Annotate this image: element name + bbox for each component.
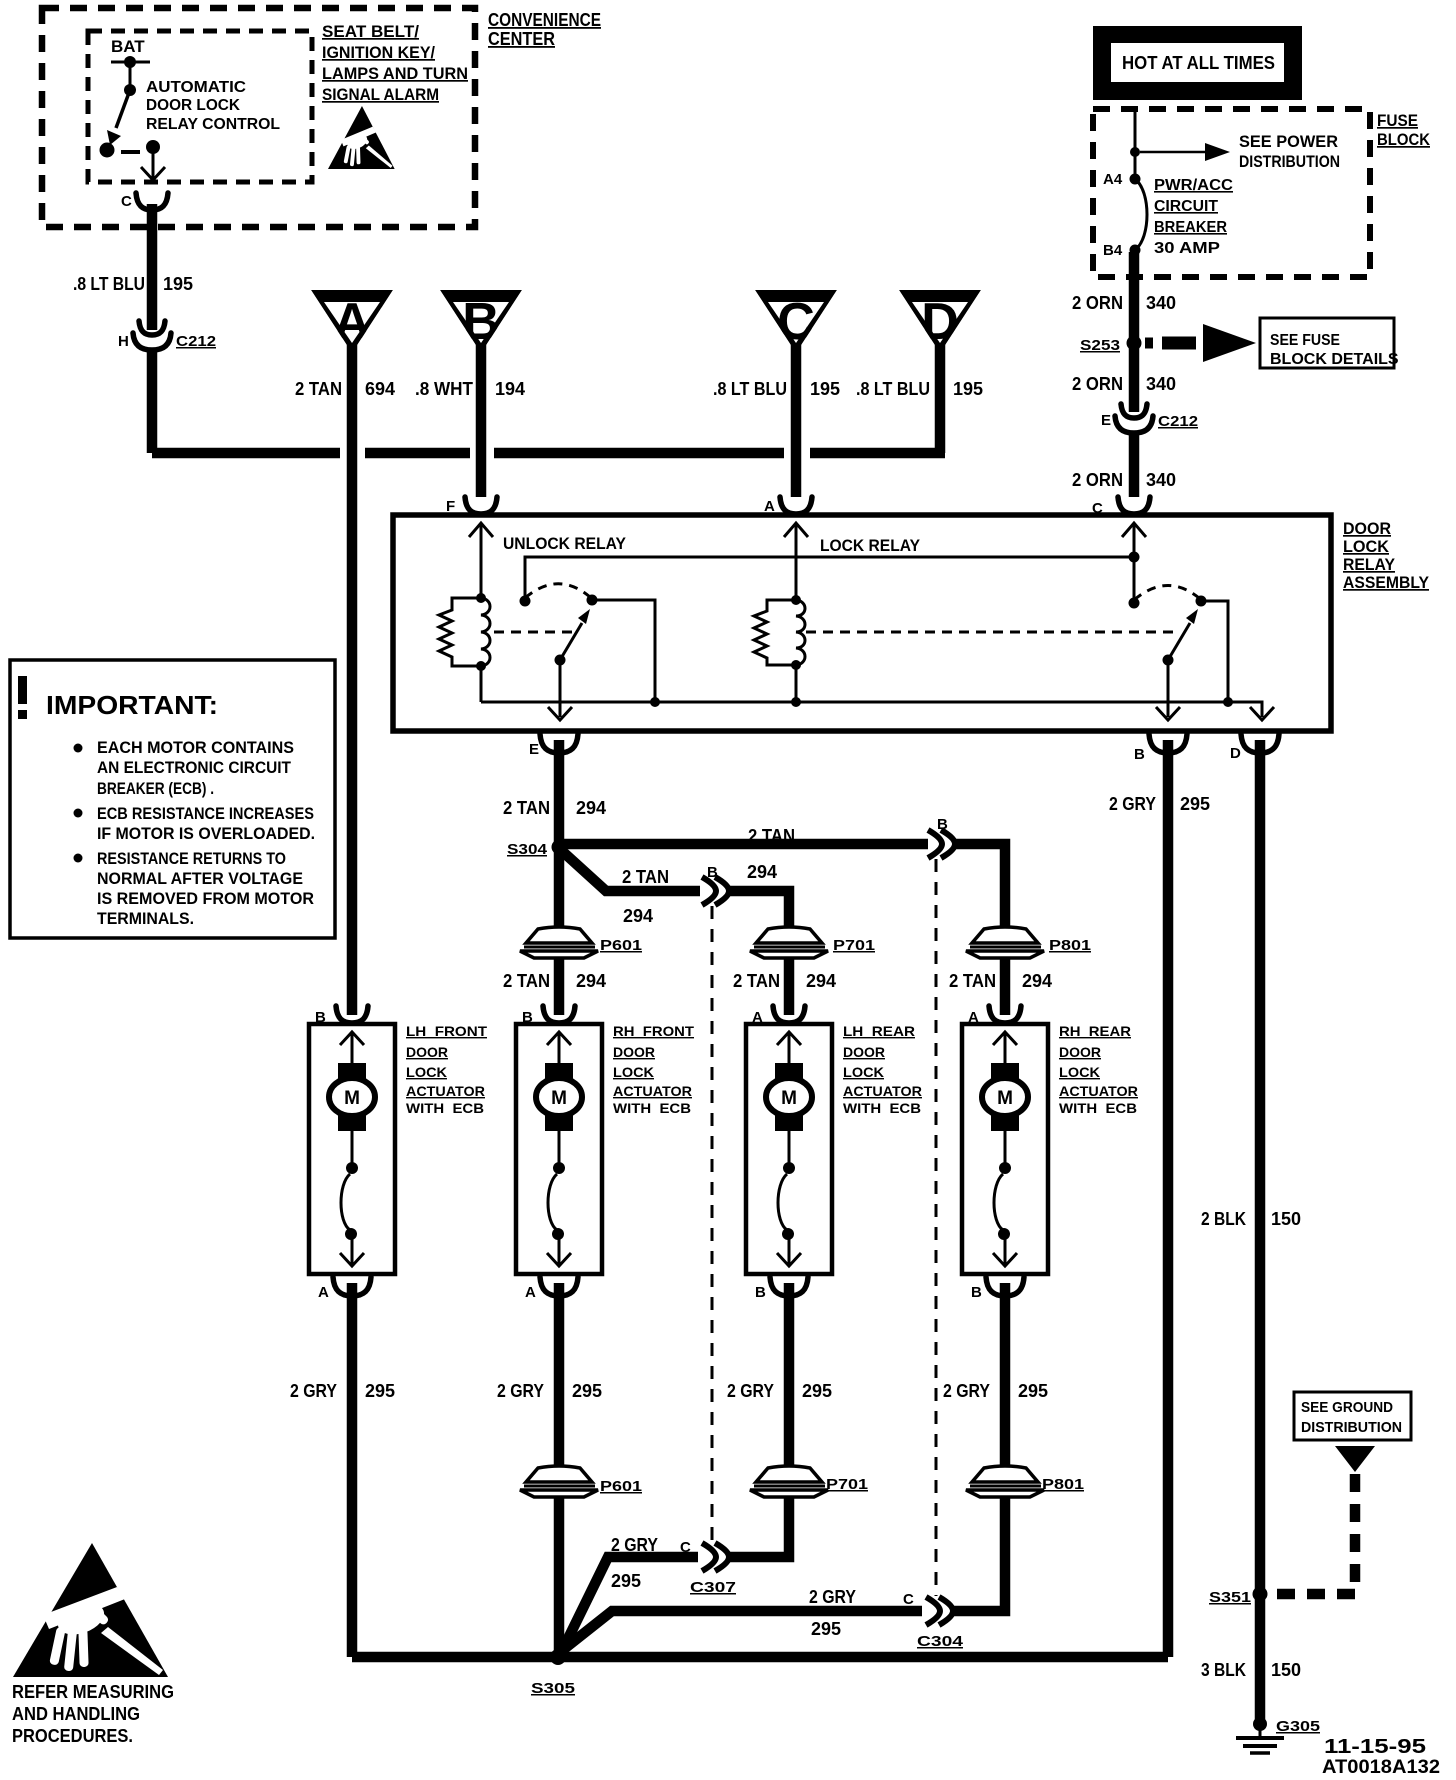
svg-text:S304: S304 <box>507 841 548 858</box>
splice S305 <box>550 1649 566 1665</box>
svg-text:E: E <box>1101 412 1111 429</box>
svg-text:2 ORN: 2 ORN <box>1072 470 1123 490</box>
exclamation mark <box>18 676 27 704</box>
svg-text:P601: P601 <box>600 937 642 954</box>
door lock relay assembly box <box>393 515 1331 731</box>
svg-text:DOOR: DOOR <box>1343 519 1391 538</box>
wire <box>129 62 132 90</box>
unlock relay switch <box>520 596 531 607</box>
svg-text:B: B <box>971 1284 982 1301</box>
svg-text:295: 295 <box>811 1619 841 1639</box>
svg-text:P801: P801 <box>1042 1476 1084 1493</box>
svg-text:C: C <box>903 1591 914 1608</box>
svg-text:WITH ECB: WITH ECB <box>613 1100 691 1116</box>
svg-text:IGNITION KEY/: IGNITION KEY/ <box>322 43 435 62</box>
wire from H to bus <box>152 348 340 453</box>
triangle connector C <box>755 290 837 353</box>
svg-text:IS REMOVED FROM MOTOR: IS REMOVED FROM MOTOR <box>97 889 314 908</box>
internal bottom wire to pin D <box>481 702 1262 717</box>
svg-text:294: 294 <box>576 798 606 818</box>
svg-text:194: 194 <box>495 379 525 399</box>
wire 2 GRY 295 C307 to S305 <box>560 1557 698 1655</box>
svg-text:CENTER: CENTER <box>488 29 555 49</box>
svg-text:SEE FUSE: SEE FUSE <box>1270 332 1340 349</box>
svg-text:294: 294 <box>1022 971 1052 991</box>
convenience center dashed box <box>42 8 475 227</box>
pass-through grommet P601 <box>520 927 598 958</box>
lock relay coil <box>795 524 798 600</box>
svg-text:HOT AT ALL TIMES: HOT AT ALL TIMES <box>1122 53 1275 73</box>
wire .8 WHT 194 from B to relay pin F <box>476 344 487 497</box>
svg-text:2 GRY: 2 GRY <box>611 1535 658 1555</box>
arrow from ground distribution <box>1335 1446 1375 1472</box>
svg-text:294: 294 <box>623 906 653 926</box>
svg-text:DOOR LOCK: DOOR LOCK <box>146 97 240 114</box>
fuse block dashed box <box>1093 109 1370 277</box>
svg-text:C212: C212 <box>176 333 216 350</box>
svg-text:.8 WHT: .8 WHT <box>415 379 473 399</box>
svg-text:2 ORN: 2 ORN <box>1072 374 1123 394</box>
switch automatic door lock relay control <box>124 84 136 96</box>
svg-text:NORMAL AFTER VOLTAGE: NORMAL AFTER VOLTAGE <box>97 869 303 888</box>
svg-text:195: 195 <box>163 274 193 294</box>
box SEE FUSE BLOCK DETAILS <box>1260 318 1394 368</box>
pass-through grommet P801 <box>966 927 1044 958</box>
svg-text:LOCK: LOCK <box>613 1064 654 1080</box>
ESD warning symbol large <box>13 1543 168 1677</box>
svg-text:P601: P601 <box>600 1478 642 1495</box>
svg-text:2 GRY: 2 GRY <box>809 1587 856 1607</box>
wire RH front to S305 <box>554 1496 565 1657</box>
wire 2 GRY 295 from RH rear pin B <box>1000 1283 1011 1467</box>
motor M <box>338 1063 366 1080</box>
svg-text:S305: S305 <box>531 1680 575 1697</box>
splice S304 <box>552 840 567 855</box>
svg-text:E: E <box>529 741 539 758</box>
svg-text:ACTUATOR: ACTUATOR <box>613 1083 692 1099</box>
svg-text:2 TAN: 2 TAN <box>503 798 550 818</box>
svg-text:DOOR: DOOR <box>613 1044 655 1060</box>
wire 2 GRY 295 from RH front pin A <box>554 1283 565 1467</box>
svg-text:2 BLK: 2 BLK <box>1201 1209 1246 1229</box>
arrow SEE POWER DISTRIBUTION <box>1140 151 1205 154</box>
svg-text:B4: B4 <box>1103 242 1123 259</box>
bullet 2 <box>74 809 83 818</box>
svg-text:295: 295 <box>611 1571 641 1591</box>
svg-text:DISTRIBUTION: DISTRIBUTION <box>1239 152 1340 171</box>
svg-text:2 GRY: 2 GRY <box>290 1381 337 1401</box>
wire .8 LT BLU 195 from C to relay pin A <box>791 344 802 497</box>
svg-text:30 AMP: 30 AMP <box>1154 240 1220 257</box>
svg-text:2 TAN: 2 TAN <box>748 826 795 846</box>
bus wire from H to D with crossover breaks <box>365 448 945 459</box>
wire RH rear down to C304 run <box>951 1496 1005 1611</box>
svg-text:A: A <box>764 498 775 515</box>
svg-text:ACTUATOR: ACTUATOR <box>843 1083 922 1099</box>
wire unlock pivot to pin E <box>559 660 562 717</box>
svg-text:340: 340 <box>1146 293 1176 313</box>
svg-text:340: 340 <box>1146 470 1176 490</box>
svg-text:D: D <box>1230 745 1241 762</box>
LH front door lock actuator <box>309 1006 487 1301</box>
svg-text:B: B <box>755 1284 766 1301</box>
wire down from S304 to P601 <box>554 847 565 928</box>
svg-text:DOOR: DOOR <box>843 1044 885 1060</box>
svg-text:RH FRONT: RH FRONT <box>613 1023 694 1039</box>
pass-through grommet P601 lower <box>520 1466 598 1497</box>
svg-text:S253: S253 <box>1080 337 1120 354</box>
motor M <box>545 1063 573 1080</box>
splice S253 <box>1127 336 1142 351</box>
svg-text:DOOR: DOOR <box>1059 1044 1101 1060</box>
ECB breaker <box>788 1131 791 1168</box>
LH rear door lock actuator <box>746 1006 922 1301</box>
svg-text:C304: C304 <box>917 1633 964 1650</box>
wire lock pivot to pin B <box>1167 660 1170 717</box>
svg-text:294: 294 <box>576 971 606 991</box>
triangle connector B <box>440 290 522 353</box>
svg-text:195: 195 <box>953 379 983 399</box>
splice S351 <box>1253 1587 1268 1602</box>
svg-text:C: C <box>121 193 132 210</box>
svg-text:2 GRY: 2 GRY <box>497 1381 544 1401</box>
svg-text:150: 150 <box>1271 1209 1301 1229</box>
wire 2 GRY 295 from LH front pin A <box>347 1283 358 1657</box>
svg-text:PWR/ACC: PWR/ACC <box>1154 177 1233 194</box>
svg-text:FUSE: FUSE <box>1377 111 1418 130</box>
svg-text:G305: G305 <box>1276 1718 1320 1735</box>
svg-text:C307: C307 <box>690 1579 736 1596</box>
bullet 1 <box>74 744 83 753</box>
svg-text:SEE GROUND: SEE GROUND <box>1301 1399 1393 1416</box>
svg-text:150: 150 <box>1271 1660 1301 1680</box>
svg-text:B: B <box>1134 746 1145 763</box>
ECB breaker <box>351 1131 354 1168</box>
RH front door lock actuator <box>516 1006 694 1301</box>
svg-text:P701: P701 <box>833 937 875 954</box>
svg-text:.8 LT BLU: .8 LT BLU <box>713 379 787 399</box>
svg-text:2 TAN: 2 TAN <box>733 971 780 991</box>
ECB breaker <box>558 1131 561 1168</box>
wire 2 TAN branch to LH rear <box>562 851 700 891</box>
svg-text:BLOCK: BLOCK <box>1377 130 1431 149</box>
dashed line B connector to C307 <box>711 906 714 1542</box>
svg-text:TERMINALS.: TERMINALS. <box>97 909 194 928</box>
wire inside fuse block <box>1134 112 1137 179</box>
svg-text:REFER MEASURING: REFER MEASURING <box>12 1682 174 1702</box>
svg-text:BLOCK DETAILS: BLOCK DETAILS <box>1270 351 1399 368</box>
svg-text:BREAKER (ECB) .: BREAKER (ECB) . <box>97 779 214 798</box>
svg-text:A4: A4 <box>1103 171 1123 188</box>
wire 2 TAN 294 to LH rear <box>784 957 795 1015</box>
wire 2 TAN branch to RH rear <box>564 839 928 850</box>
svg-text:AN ELECTRONIC CIRCUIT: AN ELECTRONIC CIRCUIT <box>97 758 292 777</box>
svg-text:A: A <box>318 1284 329 1301</box>
svg-text:LOCK: LOCK <box>1343 537 1390 556</box>
svg-text:2 GRY: 2 GRY <box>727 1381 774 1401</box>
wire to pin C with arrow <box>152 147 155 178</box>
ESD warning symbol small <box>328 106 395 169</box>
svg-text:2 TAN: 2 TAN <box>622 867 669 887</box>
svg-text:P801: P801 <box>1049 937 1091 954</box>
svg-text:RH REAR: RH REAR <box>1059 1023 1131 1039</box>
svg-text:A: A <box>525 1284 536 1301</box>
svg-text:295: 295 <box>802 1381 832 1401</box>
svg-text:WITH ECB: WITH ECB <box>1059 1100 1137 1116</box>
svg-text:H: H <box>118 333 129 350</box>
svg-text:SIGNAL ALARM: SIGNAL ALARM <box>322 85 439 104</box>
svg-text:RELAY: RELAY <box>1343 555 1396 574</box>
svg-text:S351: S351 <box>1209 1589 1251 1606</box>
svg-text:M: M <box>344 1088 360 1109</box>
ECB breaker <box>1004 1131 1007 1168</box>
svg-text:ASSEMBLY: ASSEMBLY <box>1343 573 1430 592</box>
svg-text:LOCK RELAY: LOCK RELAY <box>820 536 921 555</box>
svg-text:295: 295 <box>1018 1381 1048 1401</box>
svg-text:WITH ECB: WITH ECB <box>406 1100 484 1116</box>
IMPORTANT box <box>10 660 335 938</box>
svg-text:295: 295 <box>572 1381 602 1401</box>
svg-text:294: 294 <box>747 862 777 882</box>
svg-text:BAT: BAT <box>111 37 145 56</box>
svg-text:F: F <box>446 498 455 515</box>
svg-text:C: C <box>1092 500 1103 517</box>
svg-text:.8 LT BLU: .8 LT BLU <box>856 379 930 399</box>
motor M <box>991 1063 1019 1080</box>
svg-text:LOCK: LOCK <box>406 1064 447 1080</box>
svg-text:LH REAR: LH REAR <box>843 1023 915 1039</box>
svg-text:2 TAN: 2 TAN <box>503 971 550 991</box>
RH rear door lock actuator <box>962 1006 1138 1301</box>
svg-text:DISTRIBUTION: DISTRIBUTION <box>1301 1419 1402 1436</box>
svg-text:IF MOTOR IS OVERLOADED.: IF MOTOR IS OVERLOADED. <box>97 824 315 843</box>
svg-text:PROCEDURES.: PROCEDURES. <box>12 1726 133 1746</box>
svg-text:AUTOMATIC: AUTOMATIC <box>146 79 246 96</box>
svg-text:CONVENIENCE: CONVENIENCE <box>488 10 601 30</box>
svg-text:BREAKER: BREAKER <box>1154 219 1227 236</box>
svg-text:ACTUATOR: ACTUATOR <box>406 1083 485 1099</box>
svg-text:195: 195 <box>810 379 840 399</box>
svg-text:CIRCUIT: CIRCUIT <box>1154 198 1218 215</box>
motor M <box>775 1063 803 1080</box>
svg-text:295: 295 <box>365 1381 395 1401</box>
unlock relay coil <box>480 524 483 598</box>
svg-text:IMPORTANT:: IMPORTANT: <box>46 690 218 720</box>
dashed arrow to SEE FUSE BLOCK DETAILS <box>1145 338 1153 349</box>
pass-through grommet P701 lower <box>750 1466 828 1497</box>
svg-text:2 TAN: 2 TAN <box>949 971 996 991</box>
svg-text:WITH ECB: WITH ECB <box>843 1100 921 1116</box>
HOT AT ALL TIMES box <box>1093 26 1302 100</box>
dashed line B connector to C304 <box>935 859 938 1596</box>
svg-text:RESISTANCE RETURNS TO: RESISTANCE RETURNS TO <box>97 849 286 868</box>
svg-text:M: M <box>997 1088 1013 1109</box>
svg-text:SEAT BELT/: SEAT BELT/ <box>322 22 419 41</box>
svg-text:11-15-95: 11-15-95 <box>1324 1736 1426 1758</box>
wire 2 GRY 295 C304 to S305 <box>559 1611 922 1653</box>
box SEE GROUND DISTRIBUTION <box>1294 1392 1411 1440</box>
pass-through grommet P801 lower <box>966 1466 1044 1497</box>
svg-text:340: 340 <box>1146 374 1176 394</box>
svg-text:P701: P701 <box>826 1476 868 1493</box>
svg-text:LOCK: LOCK <box>843 1064 884 1080</box>
svg-text:ACTUATOR: ACTUATOR <box>1059 1083 1138 1099</box>
svg-text:C212: C212 <box>1158 413 1198 430</box>
wire 2 TAN 294 from pin E <box>554 740 565 847</box>
svg-text:M: M <box>551 1088 567 1109</box>
wire 2 TAN 294 to RH rear <box>1000 957 1011 1015</box>
triangle connector A <box>311 290 393 353</box>
svg-text:LOCK: LOCK <box>1059 1064 1100 1080</box>
wire 2 ORN 340 <box>1129 252 1140 412</box>
wire 2 GRY 295 from LH rear pin B <box>784 1283 795 1467</box>
svg-text:2 ORN: 2 ORN <box>1072 293 1123 313</box>
svg-text:M: M <box>781 1088 797 1109</box>
wire unlock NO contact to bottom <box>592 600 655 702</box>
wire .8 LT BLU 195 <box>147 204 158 330</box>
svg-text:RELAY CONTROL: RELAY CONTROL <box>146 116 280 133</box>
svg-text:DOOR: DOOR <box>406 1044 448 1060</box>
lock relay switch <box>1129 552 1140 563</box>
wire 2 BLK 150 from relay pin D <box>1255 740 1266 1724</box>
svg-text:ECB RESISTANCE INCREASES: ECB RESISTANCE INCREASES <box>97 804 314 823</box>
wire .8 LT BLU 195 from D to bus <box>935 344 946 453</box>
wire 2 TAN 694 from A <box>347 344 358 1015</box>
wire 2 ORN 340 to relay <box>1129 434 1140 497</box>
triangle connector D <box>899 290 981 353</box>
svg-text:AND HANDLING: AND HANDLING <box>12 1704 140 1724</box>
svg-text:.8 LT BLU: .8 LT BLU <box>73 274 145 294</box>
svg-text:2 GRY: 2 GRY <box>943 1381 990 1401</box>
svg-text:LH FRONT: LH FRONT <box>406 1023 487 1039</box>
wire LH rear down to C307 run <box>727 1496 789 1557</box>
svg-text:694: 694 <box>365 379 395 399</box>
dashed wire to S351 <box>1268 1474 1355 1594</box>
svg-text:294: 294 <box>806 971 836 991</box>
svg-text:SEE POWER: SEE POWER <box>1239 132 1338 151</box>
svg-text:295: 295 <box>1180 794 1210 814</box>
svg-text:2 TAN: 2 TAN <box>295 379 342 399</box>
svg-text:UNLOCK RELAY: UNLOCK RELAY <box>503 534 627 553</box>
svg-text:EACH MOTOR CONTAINS: EACH MOTOR CONTAINS <box>97 738 294 757</box>
bottom bus wire <box>352 1652 1168 1663</box>
bullet 3 <box>74 854 83 863</box>
svg-text:3 BLK: 3 BLK <box>1201 1660 1246 1680</box>
wire unlock coil contact to lock relay pin C <box>525 557 1134 601</box>
ground G305 <box>1253 1717 1267 1731</box>
pass-through grommet P701 <box>750 927 828 958</box>
svg-text:AT0018A132: AT0018A132 <box>1322 1757 1440 1778</box>
svg-text:LAMPS AND TURN: LAMPS AND TURN <box>322 64 468 83</box>
wire 2 TAN 294 to RH front <box>554 957 565 1015</box>
node BAT terminal <box>111 61 150 64</box>
automatic door lock relay control dashed box <box>88 31 312 182</box>
circuit breaker PWR/ACC 30A <box>1135 179 1147 250</box>
wire lock NO contact to bottom <box>1201 601 1228 702</box>
svg-text:2 GRY: 2 GRY <box>1109 794 1156 814</box>
wire 2 GRY 295 from relay pin B <box>1163 740 1174 1657</box>
